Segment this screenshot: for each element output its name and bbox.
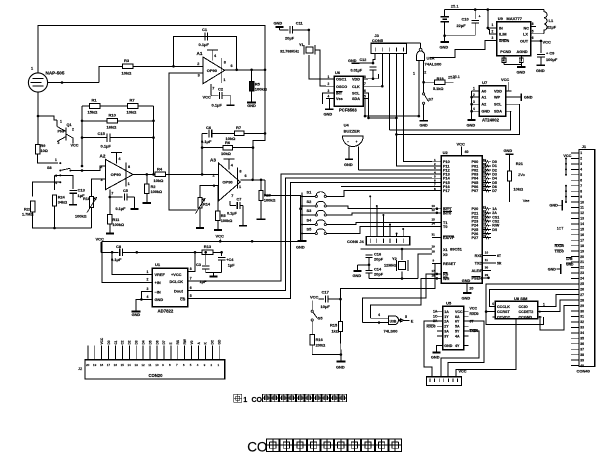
svg-text:WP: WP (494, 96, 501, 100)
svg-text:32: 32 (483, 187, 487, 191)
wire S5 to U2 (326, 227, 432, 234)
U2 pin T1 (432, 221, 441, 223)
resistor R10 16k (82, 120, 107, 122)
svg-text:22μF: 22μF (547, 25, 557, 30)
connector J4 pin wires (369, 196, 371, 236)
svg-text:PCND: PCND (500, 50, 511, 54)
resistor R2 100k at A2 output (146, 174, 148, 184)
svg-text:R13: R13 (204, 244, 212, 249)
wire R23 R24 bottom (33, 212, 92, 228)
svg-text:OP90: OP90 (222, 180, 233, 185)
switch rail gnd (301, 193, 303, 241)
svg-text:33: 33 (580, 326, 584, 330)
svg-text:−IN: −IN (155, 289, 161, 294)
U2 pin P07 (482, 190, 491, 192)
svg-text:7: 7 (231, 194, 233, 198)
svg-text:IN: IN (499, 26, 503, 30)
svg-text:6: 6 (231, 64, 233, 68)
wire R3 to A1 pin2 (133, 65, 203, 67)
svg-text:1: 1 (413, 72, 415, 76)
U2 pin P05 (482, 181, 491, 183)
svg-text:−: − (347, 140, 349, 144)
svg-text:12: 12 (141, 363, 145, 367)
svg-text:17: 17 (107, 363, 111, 367)
svg-text:Vss: Vss (336, 97, 343, 101)
inductor L1 22uF (544, 10, 547, 34)
svg-text:23: 23 (580, 271, 584, 275)
svg-text:C10: C10 (462, 17, 469, 22)
MAX777 bottom pins gnd (503, 56, 505, 62)
sensor NAP-505 (28, 73, 47, 92)
svg-text:WR: WR (443, 277, 450, 281)
svg-text:3: 3 (328, 89, 330, 93)
svg-text:37: 37 (580, 347, 584, 351)
svg-text:3: 3 (473, 100, 475, 104)
svg-text:74ALS00: 74ALS00 (425, 62, 443, 67)
capacitor C10 22uF (474, 10, 476, 19)
wire NC stub (531, 25, 536, 27)
svg-text:GND: GND (155, 297, 164, 302)
resistor R24 34k (52, 195, 56, 206)
resistor R5 100k below A3 (217, 186, 219, 211)
ADC U1 AD7822 (152, 268, 188, 307)
svg-text:100kΩ: 100kΩ (75, 215, 87, 219)
U2 pin P15 (432, 181, 441, 183)
svg-text:3A: 3A (444, 329, 449, 333)
wire S4 to U2 (326, 222, 432, 224)
U2 pin P17 (432, 190, 441, 192)
svg-text:0.1μF: 0.1μF (212, 103, 223, 108)
svg-text:C15: C15 (98, 131, 106, 136)
svg-text:S5: S5 (318, 316, 324, 321)
svg-text:1: 1 (55, 158, 57, 162)
connector J1 CON40 (579, 149, 595, 366)
wire VREF to C8 node (112, 252, 152, 274)
wires U3A inputs (418, 61, 420, 116)
svg-text:20: 20 (469, 287, 473, 291)
wire CS staircase (188, 182, 432, 298)
capacitor C16 20pF (361, 248, 370, 250)
svg-text:27: 27 (580, 293, 584, 297)
U2 pin TXD (482, 262, 496, 264)
svg-text:NC: NC (524, 26, 530, 30)
svg-text:R4: R4 (157, 167, 163, 172)
svg-text:R3: R3 (124, 58, 130, 63)
op-amp A3 OP90 (219, 163, 241, 201)
svg-text:D0: D0 (107, 340, 111, 344)
svg-text:11: 11 (148, 363, 151, 367)
U2 pin T0 (432, 226, 441, 228)
wire S1 to U2 (326, 191, 432, 197)
svg-text:D6: D6 (155, 340, 159, 344)
svg-text:GND: GND (548, 268, 556, 272)
svg-text:S3: S3 (307, 208, 313, 213)
svg-text:0.1μF: 0.1μF (227, 212, 238, 216)
svg-text:8: 8 (239, 170, 241, 174)
resistor R5 100k at A1 output (251, 70, 253, 82)
svg-text:15: 15 (580, 228, 584, 232)
svg-text:U5: U5 (446, 301, 452, 306)
svg-text:RS: RS (443, 273, 449, 277)
svg-text:32.768KHz: 32.768KHz (280, 50, 299, 54)
wire sensor node to Q1 (38, 116, 57, 120)
svg-text:6: 6 (245, 174, 247, 178)
svg-text:18: 18 (580, 244, 584, 248)
op-amp A1 OP90 (203, 57, 225, 84)
svg-text:200Ω: 200Ω (316, 343, 326, 348)
crystal Y2 12MHz (399, 262, 406, 270)
svg-text:2: 2 (473, 93, 475, 97)
svg-text:1Y: 1Y (444, 315, 449, 319)
svg-text:RW: RW (183, 339, 187, 344)
svg-text:C5: C5 (123, 189, 128, 193)
svg-text:11: 11 (485, 258, 489, 262)
op-amp A3 pin2 wire (202, 173, 218, 175)
svg-text:R16: R16 (316, 337, 324, 342)
svg-text:2: 2 (424, 71, 426, 75)
svg-text:25.1: 25.1 (451, 4, 460, 9)
svg-text:C1: C1 (114, 340, 118, 344)
svg-text:U8 SIM: U8 SIM (514, 296, 528, 301)
svg-text:GND: GND (296, 245, 305, 250)
wire C17 node to RESET (341, 264, 442, 300)
svg-text:CON40: CON40 (577, 369, 591, 374)
svg-text:36: 36 (580, 342, 584, 346)
svg-text:26: 26 (580, 287, 584, 291)
U6 Vss ground (326, 98, 329, 100)
svg-text:5: 5 (378, 321, 380, 325)
wires U5 wrap (424, 321, 437, 377)
svg-text:16: 16 (432, 274, 436, 278)
svg-text:GND: GND (444, 344, 452, 348)
svg-text:R1: R1 (92, 98, 98, 103)
svg-text:0.1μF: 0.1μF (111, 257, 122, 262)
svg-text:R14: R14 (203, 203, 211, 207)
svg-text:5: 5 (580, 173, 582, 177)
svg-text:CCRST: CCRST (497, 310, 510, 314)
op-amp A2 pin7 (109, 190, 111, 198)
svg-text:CCCLK: CCCLK (497, 305, 510, 309)
svg-text:5Y: 5Y (455, 329, 460, 333)
resistor R4 10k (155, 172, 166, 177)
svg-text:CCDET2: CCDET2 (519, 310, 534, 314)
svg-text:40: 40 (465, 150, 469, 154)
svg-text:10μF: 10μF (321, 304, 331, 309)
svg-text:19: 19 (93, 363, 97, 367)
SIM card connector (427, 377, 462, 386)
svg-text:16: 16 (114, 363, 118, 367)
wire up to R3 row (99, 66, 123, 82)
svg-text:VCC: VCC (543, 40, 552, 45)
wire A2 feedback right rail (153, 106, 155, 174)
svg-text:VDD: VDD (494, 89, 502, 93)
svg-text:29: 29 (580, 304, 584, 308)
svg-text:MAX777: MAX777 (506, 16, 522, 21)
svg-text:X0: X0 (443, 253, 448, 257)
I2C bus rows (365, 115, 419, 117)
svg-text:7: 7 (190, 276, 192, 280)
svg-text:17: 17 (432, 269, 436, 273)
svg-text:6: 6 (532, 36, 534, 40)
capacitor C14 20pF (365, 269, 372, 271)
svg-text:U4: U4 (344, 123, 350, 128)
svg-text:R10: R10 (109, 113, 117, 118)
potentiometer R14 (198, 198, 202, 209)
svg-text:1: 1 (473, 87, 475, 91)
crystal Y1 32.768kHz (306, 47, 313, 53)
svg-text:CON20: CON20 (149, 373, 164, 378)
capacitor C5 0.1uF (110, 196, 123, 198)
svg-text:20μF: 20μF (285, 36, 295, 41)
svg-text:28: 28 (483, 234, 487, 238)
MCU U2 89C51 (441, 156, 482, 283)
svg-text:D3: D3 (135, 340, 139, 344)
svg-text:A1: A1 (197, 51, 203, 56)
U7 WP gnd (512, 96, 522, 98)
buffer U5 (443, 306, 464, 349)
svg-text:Y2: Y2 (392, 256, 398, 261)
svg-text:VCC: VCC (310, 294, 319, 299)
RTC U6 PCF8563 (334, 76, 363, 106)
svg-text:P07: P07 (472, 189, 479, 193)
svg-text:5: 5 (364, 95, 366, 99)
svg-text:2: 2 (147, 278, 149, 282)
capacitor C4 1uF (221, 252, 223, 256)
U8 outer wire loop (486, 284, 579, 325)
svg-text:D/I: D/I (492, 228, 497, 232)
svg-text:C6: C6 (206, 125, 212, 130)
svg-text:30: 30 (580, 309, 584, 313)
svg-text:1: 1 (580, 151, 582, 155)
nand gate U3A 74ALS00 (417, 51, 425, 61)
svg-text:VCC: VCC (501, 77, 509, 82)
svg-text:5.1kΩ: 5.1kΩ (433, 87, 443, 91)
ground below C2 (227, 104, 235, 106)
resistor R3 10k (122, 64, 133, 69)
U2 pin INT0 (432, 212, 441, 214)
svg-text:S4: S4 (307, 218, 313, 223)
svg-text:6A: 6A (455, 315, 460, 319)
resistor R7 10k feedback (100, 105, 128, 107)
svg-text:GND: GND (536, 68, 545, 73)
connector J3 CON5 (371, 43, 406, 53)
capacitor C1 0.1uF (204, 33, 206, 41)
U2 pin RXD (482, 255, 496, 257)
svg-text:10: 10 (580, 200, 584, 204)
svg-text:6: 6 (580, 178, 582, 182)
svg-text:16kΩ: 16kΩ (107, 124, 118, 129)
ground below U1 (132, 311, 141, 313)
svg-text:LX: LX (523, 33, 528, 37)
svg-text:100kΩ: 100kΩ (255, 86, 268, 91)
svg-text:OSCO: OSCO (336, 85, 347, 89)
svg-text:VCC: VCC (459, 370, 467, 374)
svg-text:E: E (169, 342, 173, 344)
op-amp A2 pin3 wire (92, 179, 106, 197)
U2 pin WR (432, 277, 441, 279)
op-amp A1 output wire (225, 69, 265, 71)
wire P16 row (341, 186, 432, 188)
wire +VCC pin up (188, 252, 195, 271)
svg-text:10kΩ: 10kΩ (514, 187, 524, 192)
wire sensor top to rail (38, 26, 265, 73)
svg-text:GND: GND (353, 273, 362, 278)
svg-text:GD: GD (218, 339, 222, 344)
svg-text:7: 7 (580, 184, 582, 188)
svg-text:5: 5 (532, 30, 534, 34)
svg-text:D4: D4 (141, 340, 145, 344)
svg-text:R2: R2 (151, 185, 156, 189)
op-amp A1 feedback loop (174, 37, 237, 70)
svg-text:GND: GND (517, 70, 526, 75)
switch S7 (423, 82, 425, 93)
svg-text:VCC: VCC (563, 154, 571, 158)
svg-text:2Y: 2Y (444, 325, 449, 329)
wire U3B input4 from WR (371, 317, 389, 319)
wire C3 C4 gnd (206, 272, 222, 274)
svg-text:3: 3 (492, 36, 494, 40)
svg-text:+IN: +IN (155, 280, 161, 285)
svg-text:1: 1 (128, 182, 130, 186)
svg-text:GND: GND (274, 21, 283, 26)
U2 pin P03 (482, 173, 491, 175)
svg-text:1: 1 (328, 75, 330, 79)
U2 pin P25 (482, 228, 491, 230)
svg-text:OUT: OUT (520, 39, 529, 43)
wire R7 to right node (244, 132, 265, 134)
svg-text:10: 10 (155, 363, 159, 367)
svg-text:CON5: CON5 (372, 38, 384, 43)
svg-text:34: 34 (580, 331, 584, 335)
U2 pin P01 (482, 165, 491, 167)
svg-text:R19: R19 (437, 77, 444, 81)
svg-text:GND: GND (247, 103, 256, 108)
U2 pin P21 (482, 212, 491, 214)
svg-text:A1: A1 (481, 96, 486, 100)
svg-text:5: 5 (405, 315, 407, 319)
svg-text:1μF: 1μF (200, 279, 208, 284)
svg-text:15kΩ: 15kΩ (88, 110, 99, 115)
svg-text:CLK: CLK (352, 85, 360, 89)
svg-text:VCC: VCC (96, 236, 105, 241)
svg-text:R7: R7 (130, 98, 136, 103)
svg-text:8: 8 (224, 61, 226, 65)
svg-text:R21: R21 (516, 161, 524, 166)
svg-text:1: 1 (31, 67, 33, 71)
ground below R20 (257, 218, 266, 220)
svg-text:13: 13 (580, 217, 584, 221)
svg-text:U2: U2 (443, 150, 449, 155)
svg-text:A2: A2 (481, 103, 486, 107)
svg-text:VCC: VCC (455, 310, 463, 314)
svg-text:GND: GND (467, 123, 476, 128)
svg-text:U3B: U3B (390, 319, 397, 323)
svg-text:VREF: VREF (155, 272, 166, 277)
svg-text:3: 3 (58, 141, 60, 145)
svg-text:18: 18 (100, 363, 104, 367)
svg-text:R5: R5 (221, 214, 226, 218)
svg-text:14: 14 (432, 222, 436, 226)
svg-text:1A: 1A (444, 310, 449, 314)
ground below R15 (340, 355, 342, 362)
svg-text:22: 22 (580, 266, 584, 270)
U2 pin P04 (482, 177, 491, 179)
svg-text:17: 17 (580, 238, 584, 242)
wires MAX777 inputs (487, 10, 489, 28)
capacitor C11 20uF (276, 26, 284, 28)
svg-text:SCL: SCL (352, 92, 360, 96)
wire S2 to U2 (326, 206, 432, 209)
svg-text:1: 1 (60, 120, 62, 124)
svg-text:100kΩ: 100kΩ (264, 199, 276, 203)
svg-text:C2: C2 (121, 340, 125, 344)
svg-text:4: 4 (328, 95, 330, 99)
svg-text:3: 3 (198, 74, 200, 78)
svg-text:VCC: VCC (457, 141, 466, 146)
svg-text:A2: A2 (100, 154, 106, 159)
svg-text:1: 1 (147, 270, 149, 274)
nand gate U3B 74LS00 (389, 316, 399, 325)
svg-text:E: E (411, 319, 414, 324)
svg-text:AGND: AGND (517, 50, 528, 54)
U2 pin P20 (482, 208, 491, 210)
svg-text:GND: GND (420, 124, 429, 128)
svg-text:7: 7 (364, 82, 366, 86)
capacitor C13 1uF (69, 189, 77, 191)
svg-text:DCLCK: DCLCK (170, 279, 184, 284)
svg-text:1kΩ: 1kΩ (332, 329, 339, 334)
U2 pin INT1 (432, 208, 441, 210)
svg-text:A0: A0 (481, 89, 486, 93)
resistor R11 100k (109, 197, 111, 215)
U2 pin P12 (432, 169, 441, 171)
svg-text:AT24002: AT24002 (482, 118, 500, 123)
op-amp A3 pin4 bar (228, 159, 230, 170)
svg-text:Dout: Dout (174, 288, 184, 293)
svg-text:1: 1 (239, 185, 241, 189)
svg-text:S2: S2 (307, 199, 313, 204)
svg-text:C1: C1 (202, 27, 208, 32)
svg-text:4: 4 (473, 107, 475, 111)
svg-text:TXD0: TXD0 (555, 250, 564, 254)
resistor R9 10ohm (37, 92, 39, 116)
SDA bus row to U7 (389, 111, 510, 130)
U2 pin RD (432, 273, 441, 275)
op-amp A1 pin4 bar (211, 50, 213, 61)
svg-text:31: 31 (432, 232, 436, 236)
svg-text:4Y: 4Y (455, 344, 460, 348)
svg-text:2A: 2A (444, 320, 449, 324)
svg-text:GND: GND (336, 365, 345, 370)
svg-text:5: 5 (190, 294, 192, 298)
svg-text:14: 14 (128, 363, 132, 367)
svg-text:11: 11 (580, 206, 584, 210)
resistor R20 100k (260, 180, 262, 191)
svg-text:GND: GND (504, 148, 513, 153)
svg-text:Y1: Y1 (299, 43, 304, 47)
svg-text:C8: C8 (116, 244, 122, 249)
svg-text:BUZZER: BUZZER (344, 129, 360, 134)
svg-text:GND: GND (132, 312, 141, 317)
svg-text:C17: C17 (322, 290, 330, 295)
svg-text:R18: R18 (83, 197, 90, 201)
svg-text:CCIO: CCIO (519, 305, 528, 309)
connector J3 wires (373, 54, 375, 64)
wire A3 feedback left rail (201, 133, 203, 174)
svg-text:OP90: OP90 (207, 68, 218, 73)
svg-text:SHDN: SHDN (499, 39, 510, 43)
svg-text:RXD: RXD (475, 254, 483, 258)
